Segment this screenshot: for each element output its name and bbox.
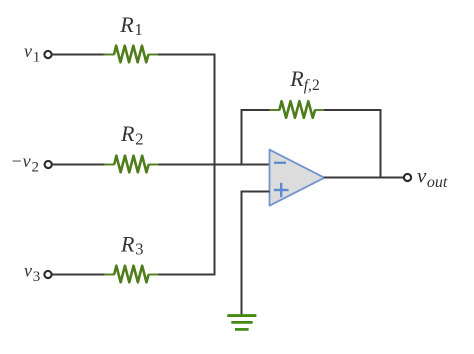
wire to ground [241,192,243,317]
wire op-amp output [324,177,403,179]
wire vertical bus node A [214,54,216,276]
resistor R1 [104,46,160,63]
resistor R2 [104,156,160,173]
wire v1 to R1 [52,54,106,56]
wire R3 to node A [159,274,216,276]
terminal v3 [44,271,51,278]
terminal v1 [44,51,51,58]
resistor Rf,2 [269,101,323,118]
wire feedback top right [324,109,382,111]
wire feedback tap vertical [241,109,243,165]
terminal vout [404,174,411,181]
wire v3 to R3 [52,274,106,276]
terminal -v2 [45,161,52,168]
op-amp U1 [270,150,325,206]
ground [227,316,256,330]
wire v2 to R2 [52,164,106,166]
wire R1 to node A [158,54,216,56]
wire R2 to op-amp inverting input [159,164,270,166]
wire op-amp noninverting input [241,191,270,193]
wire feedback top left [241,109,272,111]
resistor R3 [104,266,160,283]
wire feedback right vertical [380,109,382,178]
